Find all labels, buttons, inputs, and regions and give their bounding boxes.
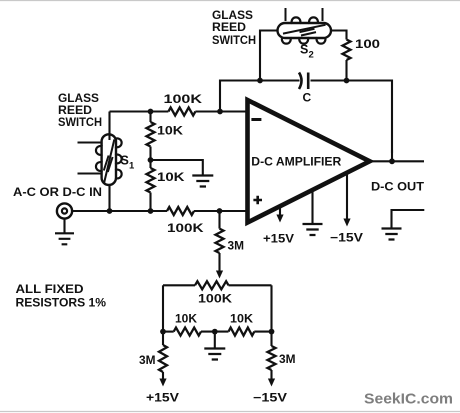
ground (10K midpoint) <box>192 176 213 187</box>
wire S1 top lead <box>108 112 110 212</box>
resistor 100 <box>343 40 351 60</box>
svg-text:100K: 100K <box>198 292 232 306</box>
node junction bottom rail right <box>269 329 275 335</box>
capacitor C <box>299 73 308 90</box>
wire 10K chain middle <box>149 147 151 169</box>
wire 10K chain bottom <box>149 193 151 212</box>
svg-text:SWITCH: SWITCH <box>212 33 256 47</box>
node junction bottom rail center <box>212 329 218 335</box>
resistor 10K (bottom left) <box>163 328 229 336</box>
resistor 3M (wiper) <box>216 229 224 253</box>
resistor 3M (right) <box>268 346 276 370</box>
reed switch S2 <box>278 8 332 44</box>
reed switch S1 <box>78 134 122 185</box>
ground (input connector) <box>55 219 74 245</box>
ground (op-amp) <box>303 191 323 235</box>
svg-text:3M: 3M <box>228 239 245 253</box>
svg-text:100: 100 <box>355 37 380 51</box>
note ALL FIXED RESISTORS 1% <box>16 282 107 310</box>
node junction 10K midpoint <box>148 157 154 163</box>
svg-text:3M: 3M <box>279 352 296 366</box>
node junction C line / 100 ohm <box>344 78 350 84</box>
wire pot right side <box>270 285 272 331</box>
svg-text:ALL FIXED: ALL FIXED <box>16 282 84 296</box>
potentiometer 100K top rail <box>163 281 272 289</box>
node junction S1 bottom <box>107 208 113 214</box>
wire output rail <box>370 160 424 162</box>
svg-text:D-C AMPLIFIER: D-C AMPLIFIER <box>251 154 341 168</box>
node junction bottom rail left <box>160 329 166 335</box>
label 100K (input resistor) <box>167 221 204 235</box>
svg-text:100K: 100K <box>164 92 203 106</box>
svg-text:+15V: +15V <box>263 232 294 246</box>
svg-text:RESISTORS 1%: RESISTORS 1% <box>16 296 107 310</box>
svg-text:+15V: +15V <box>146 391 179 405</box>
-15V supply arrow (op-amp) <box>343 174 350 227</box>
wire + node down to 3M <box>218 211 220 229</box>
wire input rail (non-inverting, y=211) <box>72 210 167 212</box>
label S2 <box>300 43 314 61</box>
label A-C OR D-C IN <box>13 185 102 199</box>
svg-text:10K: 10K <box>157 124 183 138</box>
wire 10K chain top <box>149 112 151 123</box>
op-amp - input symbol <box>251 118 261 121</box>
ground (center tap) <box>204 349 225 360</box>
label -15V (op-amp) <box>330 231 363 245</box>
input connector J1 <box>57 203 72 218</box>
wire left rail to 3M <box>162 332 164 345</box>
svg-text:SeekIC.com: SeekIC.com <box>364 391 453 408</box>
-15V supply arrow (right) <box>268 370 275 387</box>
label 10K (bottom left) <box>175 312 197 326</box>
label C <box>303 91 312 105</box>
label D-C OUT <box>371 180 425 194</box>
node junction C line / S2 branch <box>257 78 263 84</box>
label +15V (bottom) <box>146 391 179 405</box>
wire S2 left branch <box>260 31 278 81</box>
top border line <box>0 0 460 2</box>
label GLASS REED SWITCH (S1) <box>58 91 102 129</box>
label 100 <box>355 37 380 51</box>
ground (output return) <box>382 229 402 240</box>
node junction 10K chain bottom <box>148 208 154 214</box>
label 3M (left) <box>139 353 156 367</box>
label GLASS REED SWITCH (S2) <box>212 8 256 47</box>
wire - input up to C line <box>220 81 300 112</box>
node junction + input / 3M <box>217 208 223 214</box>
svg-text:2: 2 <box>309 50 314 61</box>
svg-text:SWITCH: SWITCH <box>58 115 102 129</box>
svg-text:REED: REED <box>212 20 246 34</box>
watermark SeekIC.com <box>364 391 453 408</box>
svg-text:10K: 10K <box>175 312 197 326</box>
label +15V (op-amp) <box>263 232 294 246</box>
label 10K (lower) <box>157 170 185 184</box>
label 3M (right) <box>279 352 296 366</box>
label -15V (bottom) <box>253 391 287 405</box>
node junction 10K top <box>148 109 154 115</box>
svg-text:3M: 3M <box>139 353 156 367</box>
svg-text:−15V: −15V <box>330 231 363 245</box>
bottom border line <box>0 411 460 413</box>
resistor 10K (upper) <box>147 122 155 146</box>
wire ground stub <box>151 160 203 175</box>
svg-text:−15V: −15V <box>253 391 287 405</box>
label D-C AMPLIFIER <box>251 154 341 168</box>
resistor 10K (bottom right) <box>229 328 272 336</box>
wire 100 ohm down to C line <box>345 60 347 81</box>
label 10K (bottom right) <box>230 312 253 326</box>
svg-text:100K: 100K <box>167 221 204 235</box>
label S1 <box>121 154 136 172</box>
wire right rail to 3M <box>270 332 272 346</box>
wire - rail left <box>110 110 169 112</box>
op-amp U1 D-C AMPLIFIER <box>248 100 370 223</box>
svg-text:D-C OUT: D-C OUT <box>371 180 425 194</box>
wiper arrow into pot <box>216 253 223 279</box>
wire - rail right <box>195 110 247 112</box>
label 100K (pot) <box>198 292 232 306</box>
svg-text:A-C OR D-C IN: A-C OR D-C IN <box>13 185 102 199</box>
svg-text:C: C <box>303 91 312 105</box>
wire output return stub <box>392 210 425 228</box>
svg-text:S: S <box>121 154 129 168</box>
label 10K (upper) <box>157 124 183 138</box>
svg-text:10K: 10K <box>230 312 253 326</box>
label 3M (wiper) <box>228 239 245 253</box>
node junction output / feedback <box>389 158 395 164</box>
wire C to feedback corner <box>311 81 393 154</box>
op-amp + input symbol <box>253 196 262 205</box>
resistor 3M (left) <box>159 345 167 372</box>
resistor 100K (input to + rail) <box>167 207 194 215</box>
label 100K (feedback input) <box>164 92 203 106</box>
wire center tap down <box>214 332 216 348</box>
+15V supply arrow (op-amp) <box>276 207 283 223</box>
resistor 100K (feedback input) <box>168 108 195 116</box>
wire feedback down to output <box>391 150 393 161</box>
svg-text:10K: 10K <box>157 170 185 184</box>
wire pot left side <box>162 285 164 331</box>
svg-text:1: 1 <box>129 161 135 172</box>
node junction - input / C branch <box>217 109 223 115</box>
svg-text:S: S <box>300 43 308 57</box>
resistor 10K (lower) <box>147 168 155 192</box>
+15V supply arrow (left) <box>159 372 166 387</box>
wire + rail to op-amp <box>194 210 247 212</box>
wire S2 right branch <box>331 31 347 40</box>
